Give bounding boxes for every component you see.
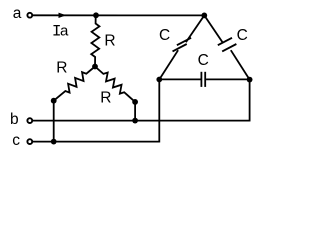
svg-text:R: R: [100, 90, 111, 107]
svg-text:C: C: [198, 52, 209, 69]
svg-text:a: a: [13, 5, 22, 22]
svg-text:C: C: [159, 27, 170, 44]
svg-text:b: b: [10, 111, 19, 128]
svg-text:c: c: [12, 132, 20, 149]
svg-text:C: C: [237, 27, 248, 44]
svg-text:a: a: [60, 23, 69, 40]
svg-text:R: R: [56, 59, 67, 76]
svg-text:R: R: [104, 33, 115, 50]
